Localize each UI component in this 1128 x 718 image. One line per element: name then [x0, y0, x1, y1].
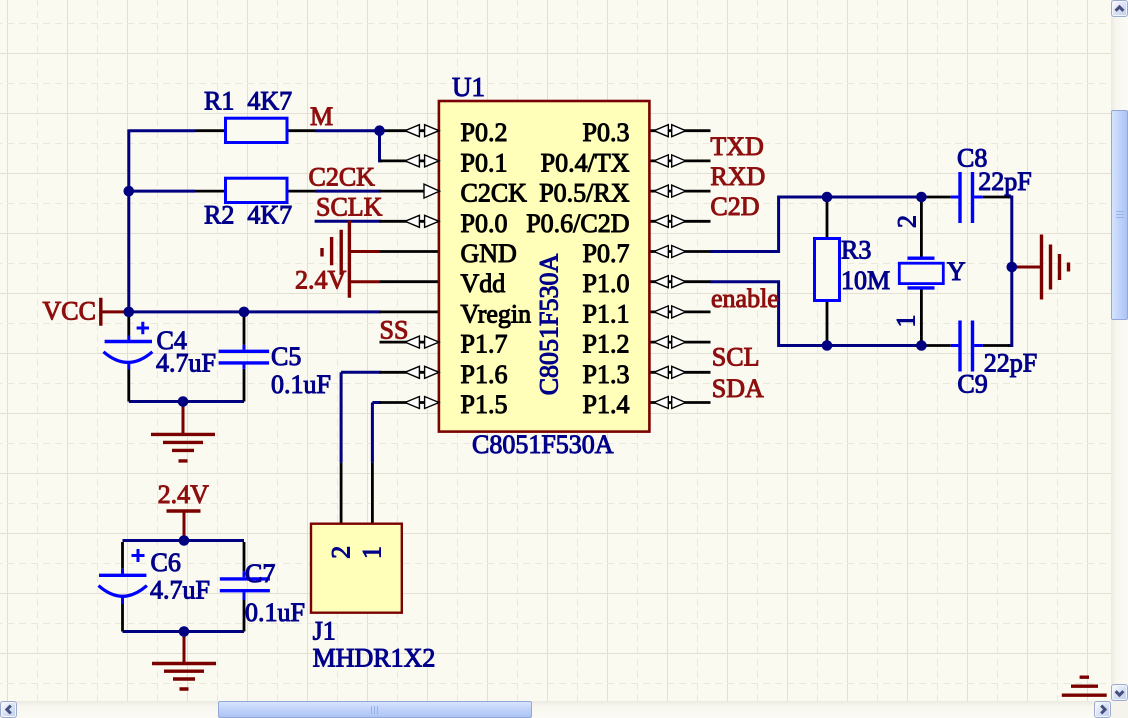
svg-text:U1: U1: [452, 72, 485, 102]
svg-text:MHDR1X2: MHDR1X2: [313, 644, 436, 673]
svg-text:C8051F530A: C8051F530A: [472, 430, 614, 459]
svg-text:P1.4: P1.4: [583, 390, 630, 419]
svg-text:SCLK: SCLK: [316, 193, 383, 222]
svg-text:Vdd: Vdd: [461, 269, 506, 298]
svg-text:22pF: 22pF: [978, 167, 1031, 196]
svg-text:C2CK: C2CK: [461, 179, 528, 208]
svg-text:C5: C5: [271, 342, 301, 371]
svg-text:4.7uF: 4.7uF: [156, 349, 216, 378]
svg-text:1: 1: [358, 546, 387, 559]
svg-text:2.4V: 2.4V: [158, 480, 210, 509]
svg-text:P1.6: P1.6: [461, 360, 508, 389]
svg-text:C6: C6: [151, 548, 181, 577]
svg-text:P0.3: P0.3: [583, 118, 630, 147]
svg-text:1: 1: [892, 315, 921, 328]
svg-text:P0.5/RX: P0.5/RX: [539, 179, 630, 208]
svg-text:TXD: TXD: [710, 132, 763, 161]
svg-text:C2CK: C2CK: [309, 163, 376, 192]
svg-text:C2D: C2D: [710, 192, 759, 221]
svg-text:0.1uF: 0.1uF: [271, 370, 331, 399]
svg-text:P1.5: P1.5: [461, 390, 508, 419]
svg-text:VCC: VCC: [43, 297, 96, 326]
svg-text:GND: GND: [461, 239, 517, 268]
svg-text:P0.2: P0.2: [461, 118, 508, 147]
svg-text:R2 4K7: R2 4K7: [204, 201, 292, 230]
svg-text:4.7uF: 4.7uF: [150, 576, 210, 605]
svg-text:P0.7: P0.7: [583, 239, 630, 268]
svg-text:R3: R3: [841, 236, 871, 265]
svg-text:SS: SS: [380, 316, 409, 345]
svg-text:P0.1: P0.1: [461, 148, 508, 177]
svg-text:P0.4/TX: P0.4/TX: [541, 148, 630, 177]
svg-text:RXD: RXD: [710, 162, 765, 191]
svg-text:SCL: SCL: [712, 343, 760, 372]
svg-text:P1.2: P1.2: [583, 330, 630, 359]
svg-text:R1 4K7: R1 4K7: [204, 87, 292, 116]
svg-text:0.1uF: 0.1uF: [245, 598, 305, 627]
svg-text:10M: 10M: [841, 266, 890, 295]
svg-text:P0.6/C2D: P0.6/C2D: [526, 209, 629, 238]
svg-text:22pF: 22pF: [984, 349, 1037, 378]
svg-text:P0.0: P0.0: [461, 209, 508, 238]
svg-text:J1: J1: [313, 617, 336, 646]
svg-text:Y: Y: [947, 257, 966, 286]
svg-text:enable: enable: [711, 284, 779, 313]
svg-text:P1.1: P1.1: [583, 299, 630, 328]
svg-text:P1.7: P1.7: [461, 330, 508, 359]
svg-text:C8051F530A: C8051F530A: [534, 253, 563, 395]
svg-text:SDA: SDA: [712, 374, 764, 403]
svg-text:2.4V: 2.4V: [295, 266, 347, 295]
svg-text:2: 2: [893, 215, 922, 228]
svg-text:P1.0: P1.0: [583, 269, 630, 298]
svg-text:P1.3: P1.3: [583, 360, 630, 389]
svg-text:M: M: [310, 102, 333, 131]
svg-text:C7: C7: [245, 559, 275, 588]
svg-text:2: 2: [326, 546, 355, 559]
svg-text:Vregin: Vregin: [461, 299, 532, 328]
